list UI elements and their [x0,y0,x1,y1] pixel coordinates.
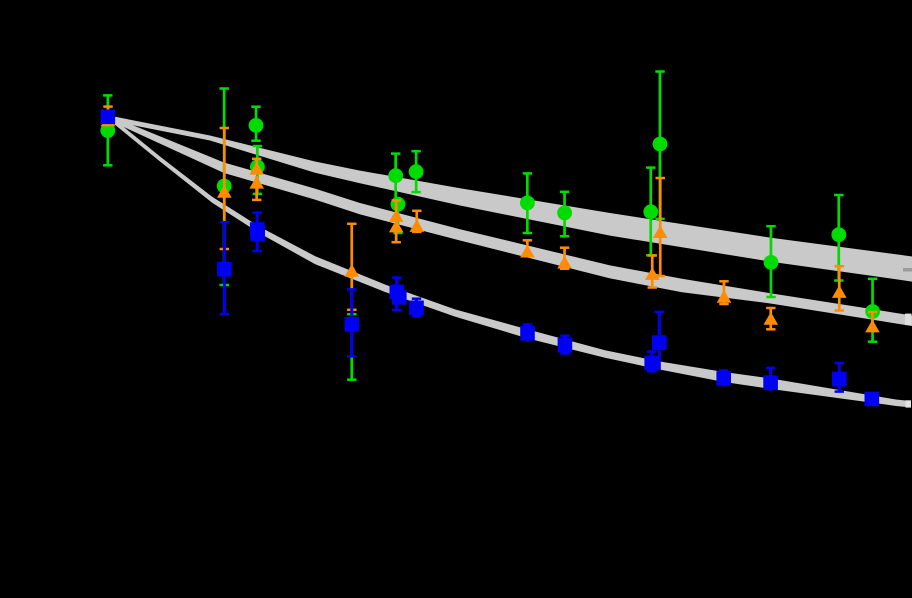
green circle marker 11 [653,137,668,152]
blue square marker 3 [250,222,265,237]
gray theory band 3 (lower) [114,119,909,407]
orange point 7 error bar [395,220,398,242]
green point 11 error bar [659,72,662,219]
orange triangle marker 7 [389,220,404,233]
blue point 6 error bar [395,278,398,310]
blue square marker 11 [652,335,667,350]
blue point 8 error bar [415,299,418,317]
blue square marker 7 [392,290,407,305]
blue point 14 error bar [769,368,772,391]
blue square marker 10 [558,338,573,353]
orange triangle marker 6 [389,209,404,222]
orange triangle marker 8 [410,219,425,232]
green circle marker 7 [409,164,424,179]
green point 8 error bar [397,200,400,234]
green point 4 error bar [256,146,259,194]
green point 13 error bar [770,226,773,297]
green point 10 error bar [563,192,566,237]
orange point 12 error bar [651,256,654,288]
orange triangle marker 5 [345,264,360,277]
green circle marker 1 [100,123,115,138]
blue point 11 error bar [658,312,661,370]
orange triangle marker 2 [217,185,232,198]
green point 5 error bar [350,314,353,380]
blue square marker 12 [644,356,659,371]
blue point 15 error bar [838,363,841,392]
blue square marker 5 [345,317,360,332]
orange triangle marker 16 [865,320,880,333]
green circle marker 6 [388,168,403,183]
band 1 end dark tick [903,268,912,272]
green circle marker 8 [391,197,406,212]
orange triangle marker 14 [764,312,779,325]
orange point 2 error bar [223,128,226,249]
blue square marker 6 [390,285,405,300]
green point 12 error bar [649,168,652,256]
blue square marker 8 [409,301,424,316]
orange triangle marker 15 [832,285,847,298]
blue point 3 error bar [256,213,259,251]
orange point 14 error bar [769,308,772,329]
green circle marker 10 [557,206,572,221]
blue point 12 error bar [650,352,653,372]
orange point 6 error bar [395,201,398,219]
band 2 end light cap [905,314,912,326]
blue square marker 15 [832,372,847,387]
band 3 end light cap [906,400,912,407]
orange triangle marker 11 [653,225,668,238]
orange point 16 error bar [871,312,874,331]
green circle marker 4 [250,159,265,174]
orange triangle marker 12 [645,267,660,280]
orange point 10 error bar [563,248,566,269]
blue point 13 error bar [722,371,725,387]
green circle marker 14 [831,227,846,242]
green point 1 error bar [107,95,110,165]
blue square marker 13 [716,371,731,386]
orange point 4 error bar [255,176,258,200]
blue point 10 error bar [563,336,566,354]
orange point 15 error bar [838,266,841,310]
green circle marker 2 [217,179,232,194]
green circle marker 13 [764,255,779,270]
blue square marker 4 [250,226,265,241]
green circle marker 3 [249,118,264,133]
green circle marker 15 [865,304,880,319]
orange point 11 error bar [659,178,662,276]
green point 9 error bar [526,173,529,233]
blue square marker 16 [865,392,880,407]
blue square marker 2 [217,262,232,277]
gray theory band 1 (upper) [114,117,912,282]
green circle marker 12 [643,204,658,219]
orange point 9 error bar [526,240,529,256]
green point 14 error bar [837,195,840,281]
gray theory band 2 (middle) [114,118,912,327]
green point 6 error bar [394,154,397,206]
orange triangle marker 4 [249,176,264,189]
blue point 5 error bar [350,289,353,356]
orange point 8 error bar [415,211,418,232]
green point 3 error bar [255,107,258,141]
blue point 2 error bar [223,222,226,314]
orange triangle marker 10 [557,256,572,269]
orange point 1 error bar [107,107,110,122]
orange triangle marker 1 [101,114,116,127]
orange triangle marker 3 [249,162,264,175]
orange point 13 error bar [723,281,726,304]
green point 2 error bar [223,89,226,286]
blue square marker 9 [520,326,535,341]
orange triangle marker 9 [520,245,535,258]
blue square marker 1 [101,110,116,125]
orange triangle marker 13 [717,290,732,303]
blue point 9 error bar [526,325,529,343]
orange point 3 error bar [255,159,258,172]
green point 7 error bar [415,151,418,192]
green circle marker 9 [520,196,535,211]
orange point 5 error bar [350,224,353,310]
green point 15 error bar [871,279,874,342]
blue square marker 14 [763,375,778,390]
